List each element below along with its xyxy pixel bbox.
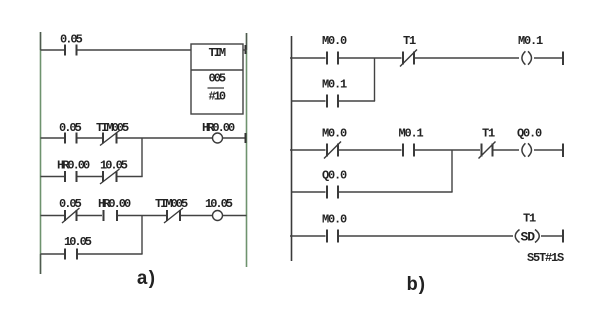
rung 3 parallel branch wire <box>41 253 65 255</box>
vertical branch join rung 3 <box>141 216 143 255</box>
rung3 branch wire to join <box>78 253 143 255</box>
rung 1 wire to TIM box <box>78 49 192 51</box>
contact Q0.0 (NO) branch <box>327 186 338 199</box>
svg-text:T1: T1 <box>523 212 536 226</box>
network 1 wire between contacts <box>339 57 402 59</box>
network 2 wire middle <box>415 149 480 151</box>
svg-text:M0.1: M0.1 <box>322 78 347 92</box>
vertical branch join rung 2 <box>141 138 143 177</box>
network 3 wire left segment <box>290 235 326 237</box>
timer coil (SD) T1 <box>515 230 539 245</box>
rung 2 wire to coil <box>118 137 213 139</box>
rung 1 wire left segment <box>41 49 65 51</box>
network 1 wire to coil <box>415 57 519 59</box>
coil M0.1 <box>522 51 532 64</box>
svg-text:10.05: 10.05 <box>64 235 92 249</box>
contact T1 (NC) network 2 <box>479 142 496 159</box>
contact TIM005 (NC) rung 3 <box>164 208 183 223</box>
network 3 wire coil to end <box>541 235 563 237</box>
rung 3 wire coil to right rail <box>223 215 247 217</box>
svg-text:M0.1: M0.1 <box>518 34 543 48</box>
contact T1 (NC) network 1 <box>400 50 417 67</box>
svg-text:S5T#1S: S5T#1S <box>527 251 564 265</box>
rung 3 wire between contacts <box>78 215 103 217</box>
svg-text:Q0.0: Q0.0 <box>517 127 542 141</box>
contact M0.0 (NC) network 2 <box>324 142 341 159</box>
svg-text:TIM005: TIM005 <box>155 197 188 211</box>
network 1 branch wire <box>292 100 376 102</box>
rung 2 parallel branch wire <box>41 176 143 178</box>
network 2 wire coil to end <box>534 149 563 151</box>
network 2 wire between contacts <box>339 149 402 151</box>
svg-text:M0.0: M0.0 <box>322 127 347 141</box>
network 1 branch vertical join <box>374 58 376 101</box>
coil Q0.0 <box>522 143 532 156</box>
network 1 wire left segment <box>290 57 326 59</box>
svg-text:M0.1: M0.1 <box>399 127 424 141</box>
contact M0.1 (NO) branch <box>327 95 338 108</box>
rung 2 wire between contacts <box>78 137 103 139</box>
svg-text:0.05: 0.05 <box>59 197 82 211</box>
svg-text:TIM: TIM <box>209 46 226 60</box>
network 1 wire coil to end <box>534 57 563 59</box>
svg-text:005: 005 <box>209 72 226 86</box>
svg-text:HR0.00: HR0.00 <box>202 121 235 135</box>
coil 10.05 <box>213 211 223 221</box>
svg-text:10.05: 10.05 <box>205 197 233 211</box>
svg-text:Q0.0: Q0.0 <box>322 169 347 183</box>
right power rail (diagram a, green) <box>246 33 247 267</box>
coil HR0.00 <box>213 133 223 143</box>
junction right rail rung2 <box>245 133 247 143</box>
svg-text:a): a) <box>137 268 156 290</box>
network 2 wire to coil <box>494 149 520 151</box>
network 2 branch vertical join <box>451 150 453 192</box>
network 3 end tick <box>562 230 564 243</box>
svg-text:#10: #10 <box>209 90 226 104</box>
svg-text:TIM005: TIM005 <box>96 121 129 135</box>
svg-text:10.05: 10.05 <box>100 159 128 173</box>
contact 0.05 (NO) rung 1 <box>65 45 77 56</box>
contact 0.05 (NC) rung 3 <box>62 208 80 223</box>
contact M0.1 (NO) network 2 <box>403 144 414 157</box>
rung 3 wire middle <box>118 215 166 217</box>
svg-text:M0.0: M0.0 <box>322 34 347 48</box>
network 1 end tick <box>562 52 564 66</box>
rung 2 wire coil to right rail <box>223 137 247 139</box>
rung 2 wire left segment <box>41 137 65 139</box>
contact M0.0 (NO) network 3 <box>327 230 338 243</box>
network 3 wire to coil <box>339 235 513 237</box>
svg-text:b): b) <box>407 274 426 296</box>
svg-text:T1: T1 <box>403 34 416 48</box>
rung 3 wire to coil <box>181 215 213 217</box>
svg-text:0.05: 0.05 <box>59 121 82 135</box>
contact HR0.00 (NO) branch <box>65 171 77 182</box>
contact HR0.00 (NO) rung 3 <box>104 210 118 221</box>
rung 3 wire left segment <box>41 215 65 217</box>
contact TIM005 (NC) rung 2 <box>100 131 120 146</box>
network 2 end tick <box>562 144 564 158</box>
contact 0.05 (NO) rung 2 <box>65 133 77 144</box>
timer box TIM005 <box>191 44 243 114</box>
network 2 branch wire <box>292 191 453 193</box>
wire TIM box to right rail <box>243 49 247 51</box>
contact M0.0 (NO) network 1 <box>327 52 338 65</box>
svg-text:HR0.00: HR0.00 <box>57 159 90 173</box>
contact 10.05 (NO) rung3 branch <box>65 249 77 260</box>
svg-text:HR0.00: HR0.00 <box>98 197 131 211</box>
left power rail (diagram b) <box>291 36 293 261</box>
svg-text:M0.0: M0.0 <box>322 213 347 227</box>
svg-text:SD: SD <box>521 230 536 245</box>
left power rail (diagram a, green) <box>40 32 42 274</box>
contact 10.05 (NC) branch <box>100 169 120 184</box>
svg-text:T1: T1 <box>482 127 495 141</box>
svg-text:0.05: 0.05 <box>60 33 83 47</box>
network 2 wire left segment <box>290 149 326 151</box>
